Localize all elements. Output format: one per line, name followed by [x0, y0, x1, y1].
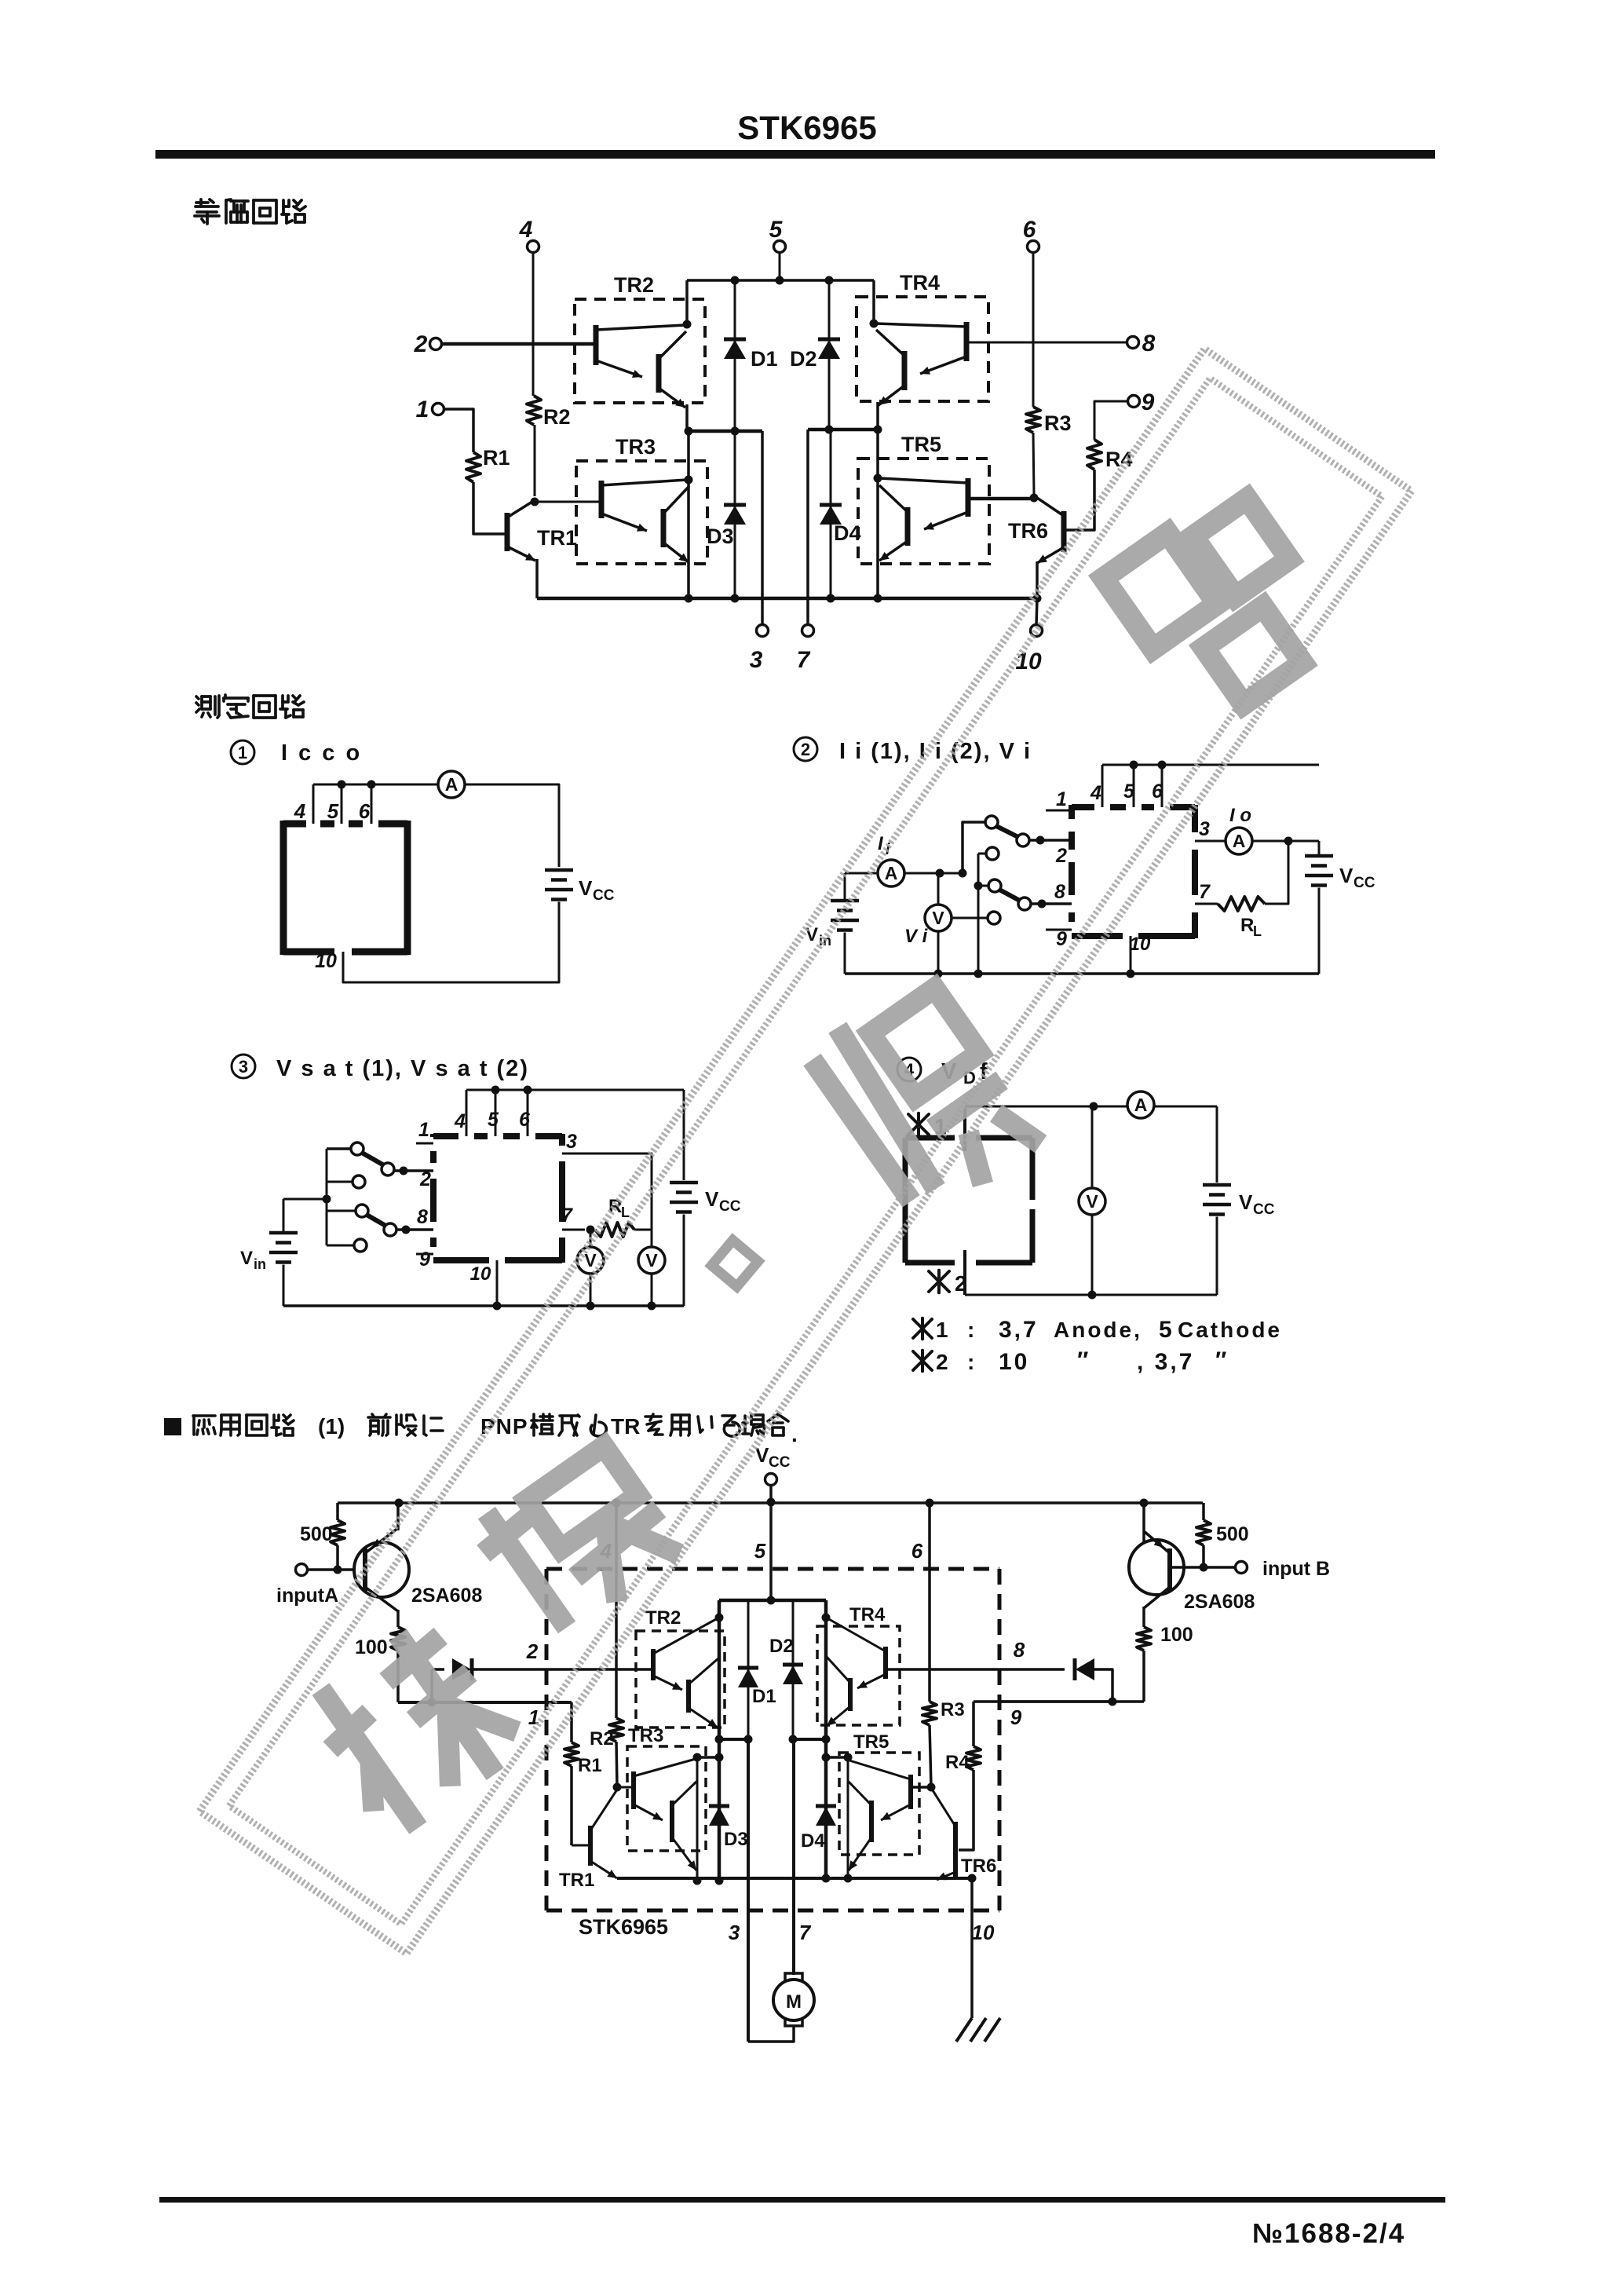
wire app pin3 drop	[747, 1739, 750, 2042]
svg-text:2: 2	[801, 740, 810, 759]
svg-text:8: 8	[1014, 1638, 1025, 1662]
wire app 100B vertical	[1142, 1503, 1145, 1542]
wire TR1 emitter to ground rail	[535, 559, 539, 598]
svg-text:8: 8	[1142, 331, 1156, 356]
transistor-group TR3 app dashed box	[627, 1746, 706, 1851]
svg-text:7: 7	[561, 1205, 573, 1227]
svg-text:2: 2	[526, 1640, 539, 1663]
wire circuit3 pin3	[562, 1153, 652, 1247]
label kome1 marker	[908, 1113, 929, 1136]
wire TR2 emitter to output	[685, 404, 689, 431]
switch SW2 circuit3	[356, 1205, 368, 1217]
svg-text:R3: R3	[1044, 411, 1072, 435]
ammeter A circuit4	[1127, 1091, 1154, 1118]
wire app output row left	[719, 1738, 748, 1741]
svg-text:CC: CC	[719, 1198, 741, 1215]
transistor TR6 app	[953, 1822, 958, 1877]
wire output node left row	[687, 430, 762, 433]
svg-text:7: 7	[799, 1921, 812, 1944]
wire circuit3 Vin	[283, 1198, 327, 1201]
svg-text::: :	[967, 1318, 974, 1342]
svg-text:2: 2	[1055, 845, 1067, 867]
IC block STK6965 dashed box	[545, 1569, 549, 1910]
battery Vcc circuit2	[1305, 854, 1333, 858]
junction top rail dots	[731, 276, 740, 285]
wire app pin8 from TR4 base	[886, 1668, 1061, 1671]
svg-text:6: 6	[1023, 217, 1036, 243]
resistor R1 app	[570, 1702, 573, 1742]
wire pin9 to R4	[1094, 401, 1128, 440]
wire output node right row	[808, 428, 879, 432]
wire circuit3 top bus to Vcc	[683, 1090, 685, 1180]
wire app TR3 row	[697, 1756, 719, 1759]
battery Vin circuit2	[844, 873, 846, 901]
transistor-group TR2 dashed box	[575, 299, 705, 403]
watermark stamp band	[199, 349, 1412, 1954]
voltmeter V circuit4	[1079, 1188, 1105, 1215]
transistor TR2b	[656, 354, 662, 393]
resistor R1	[466, 452, 480, 482]
wire app pin6 riser R3	[928, 1503, 931, 1702]
svg-text:TR2: TR2	[614, 273, 654, 297]
svg-text:V: V	[1086, 1191, 1098, 1212]
svg-text:Anode,: Anode,	[1054, 1318, 1142, 1342]
terminal pin 1	[433, 404, 444, 415]
resistor R3	[1026, 407, 1040, 433]
transistor-group TR4 dashed box	[857, 297, 988, 401]
wire circuit3 bottom rail	[283, 1304, 684, 1307]
svg-text:V: V	[645, 1250, 658, 1270]
wire app top rail	[338, 1501, 1203, 1504]
transistor TR3a	[599, 481, 605, 518]
svg-text:4: 4	[519, 217, 533, 243]
svg-text:I o: I o	[1229, 805, 1251, 826]
transistor TR2b app	[686, 1680, 691, 1713]
IC block outline circuit4	[905, 1135, 955, 1141]
node TR1 collector junction	[531, 498, 539, 506]
terminal pin 7	[802, 625, 814, 637]
svg-text:V: V	[806, 924, 818, 945]
svg-text:TR1: TR1	[537, 526, 577, 550]
wire circuit2 Io to Vcc	[1252, 840, 1319, 843]
note kome2 text	[913, 1351, 932, 1371]
wire app inner top rail	[719, 1599, 826, 1603]
battery Vcc circuit4	[1216, 1106, 1218, 1183]
wire circuit1 pin4/5/6 risers	[312, 784, 315, 824]
svg-text:10: 10	[1015, 649, 1042, 675]
svg-text:CC: CC	[1353, 875, 1375, 891]
node TR6 collector junction	[1030, 494, 1039, 503]
transistor 2SA608 B (PNP)	[1129, 1540, 1184, 1595]
svg-text:4: 4	[294, 799, 306, 823]
resistor R3 app	[922, 1702, 937, 1725]
switch SW2 circuit2	[988, 879, 1001, 892]
svg-text:CC: CC	[593, 887, 615, 904]
terminal pin 6	[1028, 241, 1039, 253]
svg-text:TR4: TR4	[849, 1604, 886, 1625]
svg-text:6: 6	[911, 1539, 923, 1563]
svg-text:10: 10	[999, 1349, 1029, 1375]
transistor TR4a	[964, 322, 970, 361]
wire pin5 vertical	[779, 252, 781, 280]
svg-text:R: R	[608, 1196, 622, 1217]
svg-text:TR3: TR3	[628, 1725, 663, 1746]
svg-text:in: in	[254, 1256, 266, 1272]
svg-text:5: 5	[1159, 1317, 1172, 1343]
terminal pin 5	[774, 241, 786, 253]
svg-text:″: ″	[1077, 1347, 1088, 1373]
transistor-group TR2 app dashed box	[636, 1631, 725, 1727]
svg-text:CC: CC	[1253, 1201, 1275, 1218]
ground symbol app	[956, 2018, 1000, 2042]
label kome2 marker	[929, 1270, 949, 1293]
transistor TR5b app	[869, 1801, 874, 1842]
svg-text:TR6: TR6	[1008, 519, 1048, 543]
svg-text:V: V	[705, 1187, 719, 1211]
wire app TR5 base to node	[911, 1786, 931, 1789]
heading equivalent-circuit 等価回路	[195, 199, 219, 224]
wire circuit4 bottom pin	[963, 1250, 966, 1295]
svg-text:A: A	[1134, 1095, 1148, 1115]
svg-text:V: V	[1239, 1190, 1253, 1214]
wire app TR5 emitter vertical	[847, 1757, 849, 1881]
wire circuit2 input loop	[845, 872, 878, 875]
ammeter A circuit1	[438, 771, 465, 798]
wire pin6 vertical	[1032, 252, 1035, 407]
svg-text:4: 4	[1090, 782, 1101, 804]
wire circuit3 switch bus	[326, 1149, 328, 1245]
resistor R2 app	[609, 1718, 623, 1742]
resistor 500 B	[1196, 1520, 1211, 1545]
terminal input B	[1170, 1566, 1236, 1569]
svg-text:CC: CC	[769, 1454, 791, 1471]
svg-text:TR5: TR5	[901, 433, 941, 456]
wire R1 to TR1 base	[473, 482, 505, 534]
svg-text:6: 6	[519, 1109, 531, 1131]
transistor-group TR4 app dashed box	[817, 1626, 900, 1725]
svg-text:TR2: TR2	[645, 1607, 681, 1629]
terminal pin 3	[757, 625, 769, 637]
diode D3 branch	[734, 431, 736, 598]
svg-text:D1: D1	[752, 1686, 776, 1707]
wire TR3 base	[535, 501, 599, 503]
wire circuit3 pin risers and top bus	[466, 1090, 468, 1136]
heading measurement-circuit 測定回路	[196, 696, 219, 718]
heading application-circuit	[164, 1418, 181, 1435]
svg-text:1: 1	[416, 397, 429, 422]
switch SW1 circuit2	[985, 816, 998, 828]
svg-text:TR1: TR1	[559, 1870, 594, 1891]
label circled 4 VDf	[897, 1058, 921, 1081]
wire app inner rail right vertical	[824, 1600, 828, 1881]
wire circuit1 bottom loop	[343, 902, 559, 983]
svg-text:, 3,7: , 3,7	[1137, 1349, 1194, 1375]
svg-text:3: 3	[1199, 818, 1210, 840]
wire pin4 vertical	[532, 252, 535, 396]
motor M app	[748, 2026, 794, 2042]
svg-text:D3: D3	[724, 1829, 748, 1850]
transistor TR5b	[905, 507, 911, 546]
resistor R2	[527, 396, 541, 425]
node TR3 dots	[685, 427, 693, 436]
battery Vcc circuit3	[670, 1181, 698, 1185]
terminal pin 4	[528, 241, 539, 253]
wire 2SA608A collector down	[396, 1610, 400, 1627]
label circled 3 Vsat	[232, 1055, 255, 1078]
svg-text:5: 5	[754, 1539, 766, 1563]
node TR4 collector dot	[870, 320, 879, 328]
diode D1 app branch	[747, 1600, 750, 1739]
svg-text:3: 3	[750, 647, 763, 673]
svg-text:V i: V i	[904, 926, 929, 947]
svg-text:500: 500	[1216, 1523, 1249, 1545]
diode D1 branch	[734, 280, 736, 431]
svg-text:10: 10	[315, 950, 337, 972]
terminal pin 10	[1031, 625, 1043, 637]
wire pin1 to R1	[444, 409, 473, 452]
svg-text:I c c o: I c c o	[281, 740, 362, 766]
wire app ground rail	[617, 1877, 972, 1880]
svg-text:D2: D2	[769, 1636, 794, 1657]
svg-text:5: 5	[327, 799, 339, 823]
wire TR6 emitter to ground	[1036, 561, 1039, 598]
svg-text:L: L	[1253, 923, 1262, 939]
wire pin2 to TR2 base	[441, 342, 594, 346]
resistor 500 input A	[336, 1503, 339, 1520]
svg-text:R1: R1	[483, 446, 510, 470]
IC block outline circuit3	[430, 1134, 437, 1137]
svg-text:V: V	[1339, 864, 1353, 887]
transistor TR5a app	[908, 1775, 913, 1809]
svg-text:5: 5	[769, 217, 784, 243]
svg-text:3: 3	[566, 1131, 577, 1153]
wire pin3 riser	[761, 431, 764, 625]
transistor TR5a	[966, 478, 971, 517]
svg-text:STK6965: STK6965	[579, 1915, 668, 1939]
svg-text:7: 7	[1199, 881, 1211, 903]
svg-text:9: 9	[419, 1249, 430, 1270]
svg-text:3: 3	[239, 1057, 248, 1077]
svg-text:4: 4	[454, 1110, 466, 1132]
svg-text:10: 10	[972, 1921, 995, 1944]
node D1/D3 output dot	[731, 427, 740, 436]
node TR2 collector dot	[683, 320, 692, 329]
svg-text:(1): (1)	[318, 1414, 345, 1439]
svg-text:R2: R2	[590, 1728, 614, 1749]
wire app pin5 riser	[769, 1502, 773, 1600]
svg-text:2: 2	[936, 1350, 948, 1374]
svg-text:1: 1	[1056, 788, 1067, 810]
svg-text:D2: D2	[790, 347, 817, 371]
transistor-group TR5 app dashed box	[839, 1753, 919, 1855]
wire TR4 collector drop	[872, 280, 875, 324]
wire pin8 from TR4 base	[966, 342, 1127, 344]
transistor TR3b	[661, 509, 667, 547]
terminal pin 9	[1128, 396, 1140, 408]
svg-text:TR6: TR6	[961, 1855, 996, 1877]
header rule	[155, 150, 1435, 159]
diode D2 app branch	[792, 1600, 795, 1739]
wire circuit2 pin7 RL	[1195, 903, 1218, 905]
svg-text:input B: input B	[1262, 1558, 1330, 1580]
transistor TR6	[1061, 511, 1067, 552]
transistor TR1 app	[572, 1844, 588, 1847]
resistor 100 B	[1137, 1627, 1151, 1651]
svg-text:1: 1	[238, 743, 247, 762]
svg-text:R4: R4	[945, 1752, 970, 1773]
transistor-group TR5 dashed box	[858, 459, 989, 564]
node TR5 dots	[874, 426, 882, 434]
transistor TR4b app	[848, 1678, 853, 1711]
watermark glyph 3	[466, 1431, 689, 1649]
wire pin7 riser	[806, 430, 809, 625]
svg-text:TR3: TR3	[616, 435, 656, 459]
svg-text:STK6965: STK6965	[737, 109, 876, 146]
svg-text:V: V	[240, 1248, 253, 1269]
transistor TR3a app	[631, 1771, 636, 1809]
watermark glyph 1 (boxes)	[1103, 484, 1343, 729]
wire circuit3 pin10 drop	[496, 1260, 499, 1306]
resistor R4 app	[972, 1702, 975, 1746]
label circled 1 Icco	[231, 740, 254, 764]
transistor TR4a app	[883, 1647, 888, 1679]
ammeter Io circuit2	[1226, 828, 1252, 854]
IC block outline circuit2	[1069, 805, 1075, 819]
svg-text:D4: D4	[801, 1830, 825, 1852]
transistor TR3b app	[670, 1801, 674, 1842]
wire pin10 drop	[1036, 598, 1037, 625]
diode D2 branch	[828, 280, 831, 430]
wire inputA base	[307, 1568, 365, 1571]
svg-text:D1: D1	[751, 347, 778, 371]
svg-text:100: 100	[1160, 1624, 1193, 1646]
svg-text:R: R	[1240, 915, 1254, 936]
transistor TR2a	[594, 325, 599, 365]
svg-text:5: 5	[488, 1109, 499, 1131]
svg-text:Cathode: Cathode	[1178, 1318, 1282, 1342]
watermark glyph 4	[299, 1610, 530, 1843]
wire circuit2 pin3 to ammeter Io	[1195, 840, 1226, 843]
svg-text:100: 100	[355, 1636, 388, 1658]
wire app pin4 riser R2	[615, 1503, 618, 1718]
wire circuit4 top bus	[965, 1106, 1217, 1108]
note kome1 text	[913, 1318, 932, 1339]
wire circuit1 A to Vcc	[466, 784, 559, 867]
wire TR2 collector drop	[685, 280, 689, 324]
svg-text:9: 9	[1010, 1706, 1022, 1729]
resistor R4	[1087, 440, 1101, 470]
diode D4 branch	[830, 430, 832, 598]
transistor TR4b	[902, 351, 908, 390]
svg-text:R2: R2	[543, 405, 571, 429]
wire app TR3 emitter vertical	[696, 1757, 699, 1881]
svg-text:9: 9	[1142, 389, 1155, 415]
svg-text:TR4: TR4	[900, 271, 940, 294]
diode D3 app	[709, 1804, 729, 1808]
wire TR4 emitter to output	[876, 402, 879, 430]
svg-text::: :	[967, 1350, 974, 1374]
wire circuit2 switch bus	[977, 854, 980, 974]
svg-text:A: A	[1233, 831, 1246, 851]
transistor-group TR3 dashed box	[576, 461, 707, 564]
svg-text:2SA608: 2SA608	[411, 1585, 482, 1607]
watermark small diamond	[711, 1240, 758, 1286]
svg-text:TR5: TR5	[853, 1731, 889, 1753]
voltmeter V2 circuit3	[638, 1247, 665, 1274]
svg-text:TR: TR	[611, 1414, 640, 1439]
svg-text:M: M	[786, 1991, 802, 2013]
diode input A	[430, 1669, 433, 1702]
switch SW1 circuit3	[351, 1143, 363, 1155]
wire TR5 base to node	[968, 497, 1034, 501]
svg-text:D3: D3	[707, 525, 734, 548]
svg-text:8: 8	[417, 1206, 428, 1228]
transistor TR1	[505, 513, 510, 551]
svg-text:2SA608: 2SA608	[1184, 1591, 1255, 1613]
svg-text:L: L	[621, 1205, 630, 1220]
wire app pin7 drop	[792, 1739, 795, 1975]
terminal input A	[296, 1564, 308, 1576]
footer rule	[159, 2197, 1445, 2203]
terminal pin 8	[1127, 337, 1139, 349]
svg-text:3: 3	[729, 1921, 740, 1944]
wire top rail	[687, 279, 874, 282]
svg-text:V: V	[579, 876, 593, 900]
svg-text:R1: R1	[578, 1755, 602, 1776]
svg-text:V: V	[755, 1443, 769, 1467]
wire R4 to TR6 base	[1066, 470, 1094, 530]
svg-text:7: 7	[797, 647, 811, 673]
wire TR5 output vertical	[876, 430, 879, 598]
wire circuit2 bottom rail	[845, 972, 1319, 975]
svg-text:1: 1	[418, 1119, 429, 1141]
svg-text:10: 10	[1130, 934, 1151, 955]
terminal pin 2	[430, 338, 442, 350]
svg-text:2: 2	[414, 331, 428, 357]
transistor TR2a app	[651, 1649, 656, 1680]
node app R2 junction	[613, 1783, 622, 1792]
svg-text:A: A	[885, 863, 898, 883]
diode D4 app	[816, 1804, 836, 1808]
svg-text:6: 6	[359, 799, 371, 823]
wire ground rail	[537, 597, 1037, 601]
wire 2SA608A emitter to rail	[396, 1503, 400, 1530]
svg-text:V: V	[932, 908, 944, 928]
svg-text:№1688-2/4: №1688-2/4	[1252, 2218, 1405, 2249]
wire app TR5 row	[826, 1756, 848, 1759]
svg-text:.: .	[791, 1422, 798, 1446]
wire app TR3 base	[617, 1786, 631, 1789]
svg-text:8: 8	[1054, 881, 1065, 903]
wire circuit3 pin7 RL	[562, 1229, 585, 1231]
battery Vcc circuit1	[545, 868, 573, 872]
wire circuit2 pin10 drop	[1130, 936, 1132, 974]
svg-text:500: 500	[300, 1523, 333, 1545]
svg-text:A: A	[445, 774, 458, 795]
svg-text:inputA: inputA	[276, 1585, 338, 1607]
svg-text:″: ″	[1215, 1347, 1226, 1373]
wire app pin1 feed	[398, 1701, 572, 1704]
label circled 2 Ii Vi	[794, 737, 817, 761]
wire app pin9 path	[999, 1700, 1112, 1703]
junction ground rail dots	[731, 594, 740, 603]
wire TR3 output vertical	[687, 431, 690, 598]
wire circuit1 top bus	[313, 784, 437, 786]
transistor 2SA608 A (PNP)	[354, 1542, 409, 1597]
IC block outline circuit1	[280, 821, 287, 955]
wire app pin10 ground drop	[970, 1878, 974, 2018]
voltmeter V1 circuit3	[577, 1247, 604, 1274]
